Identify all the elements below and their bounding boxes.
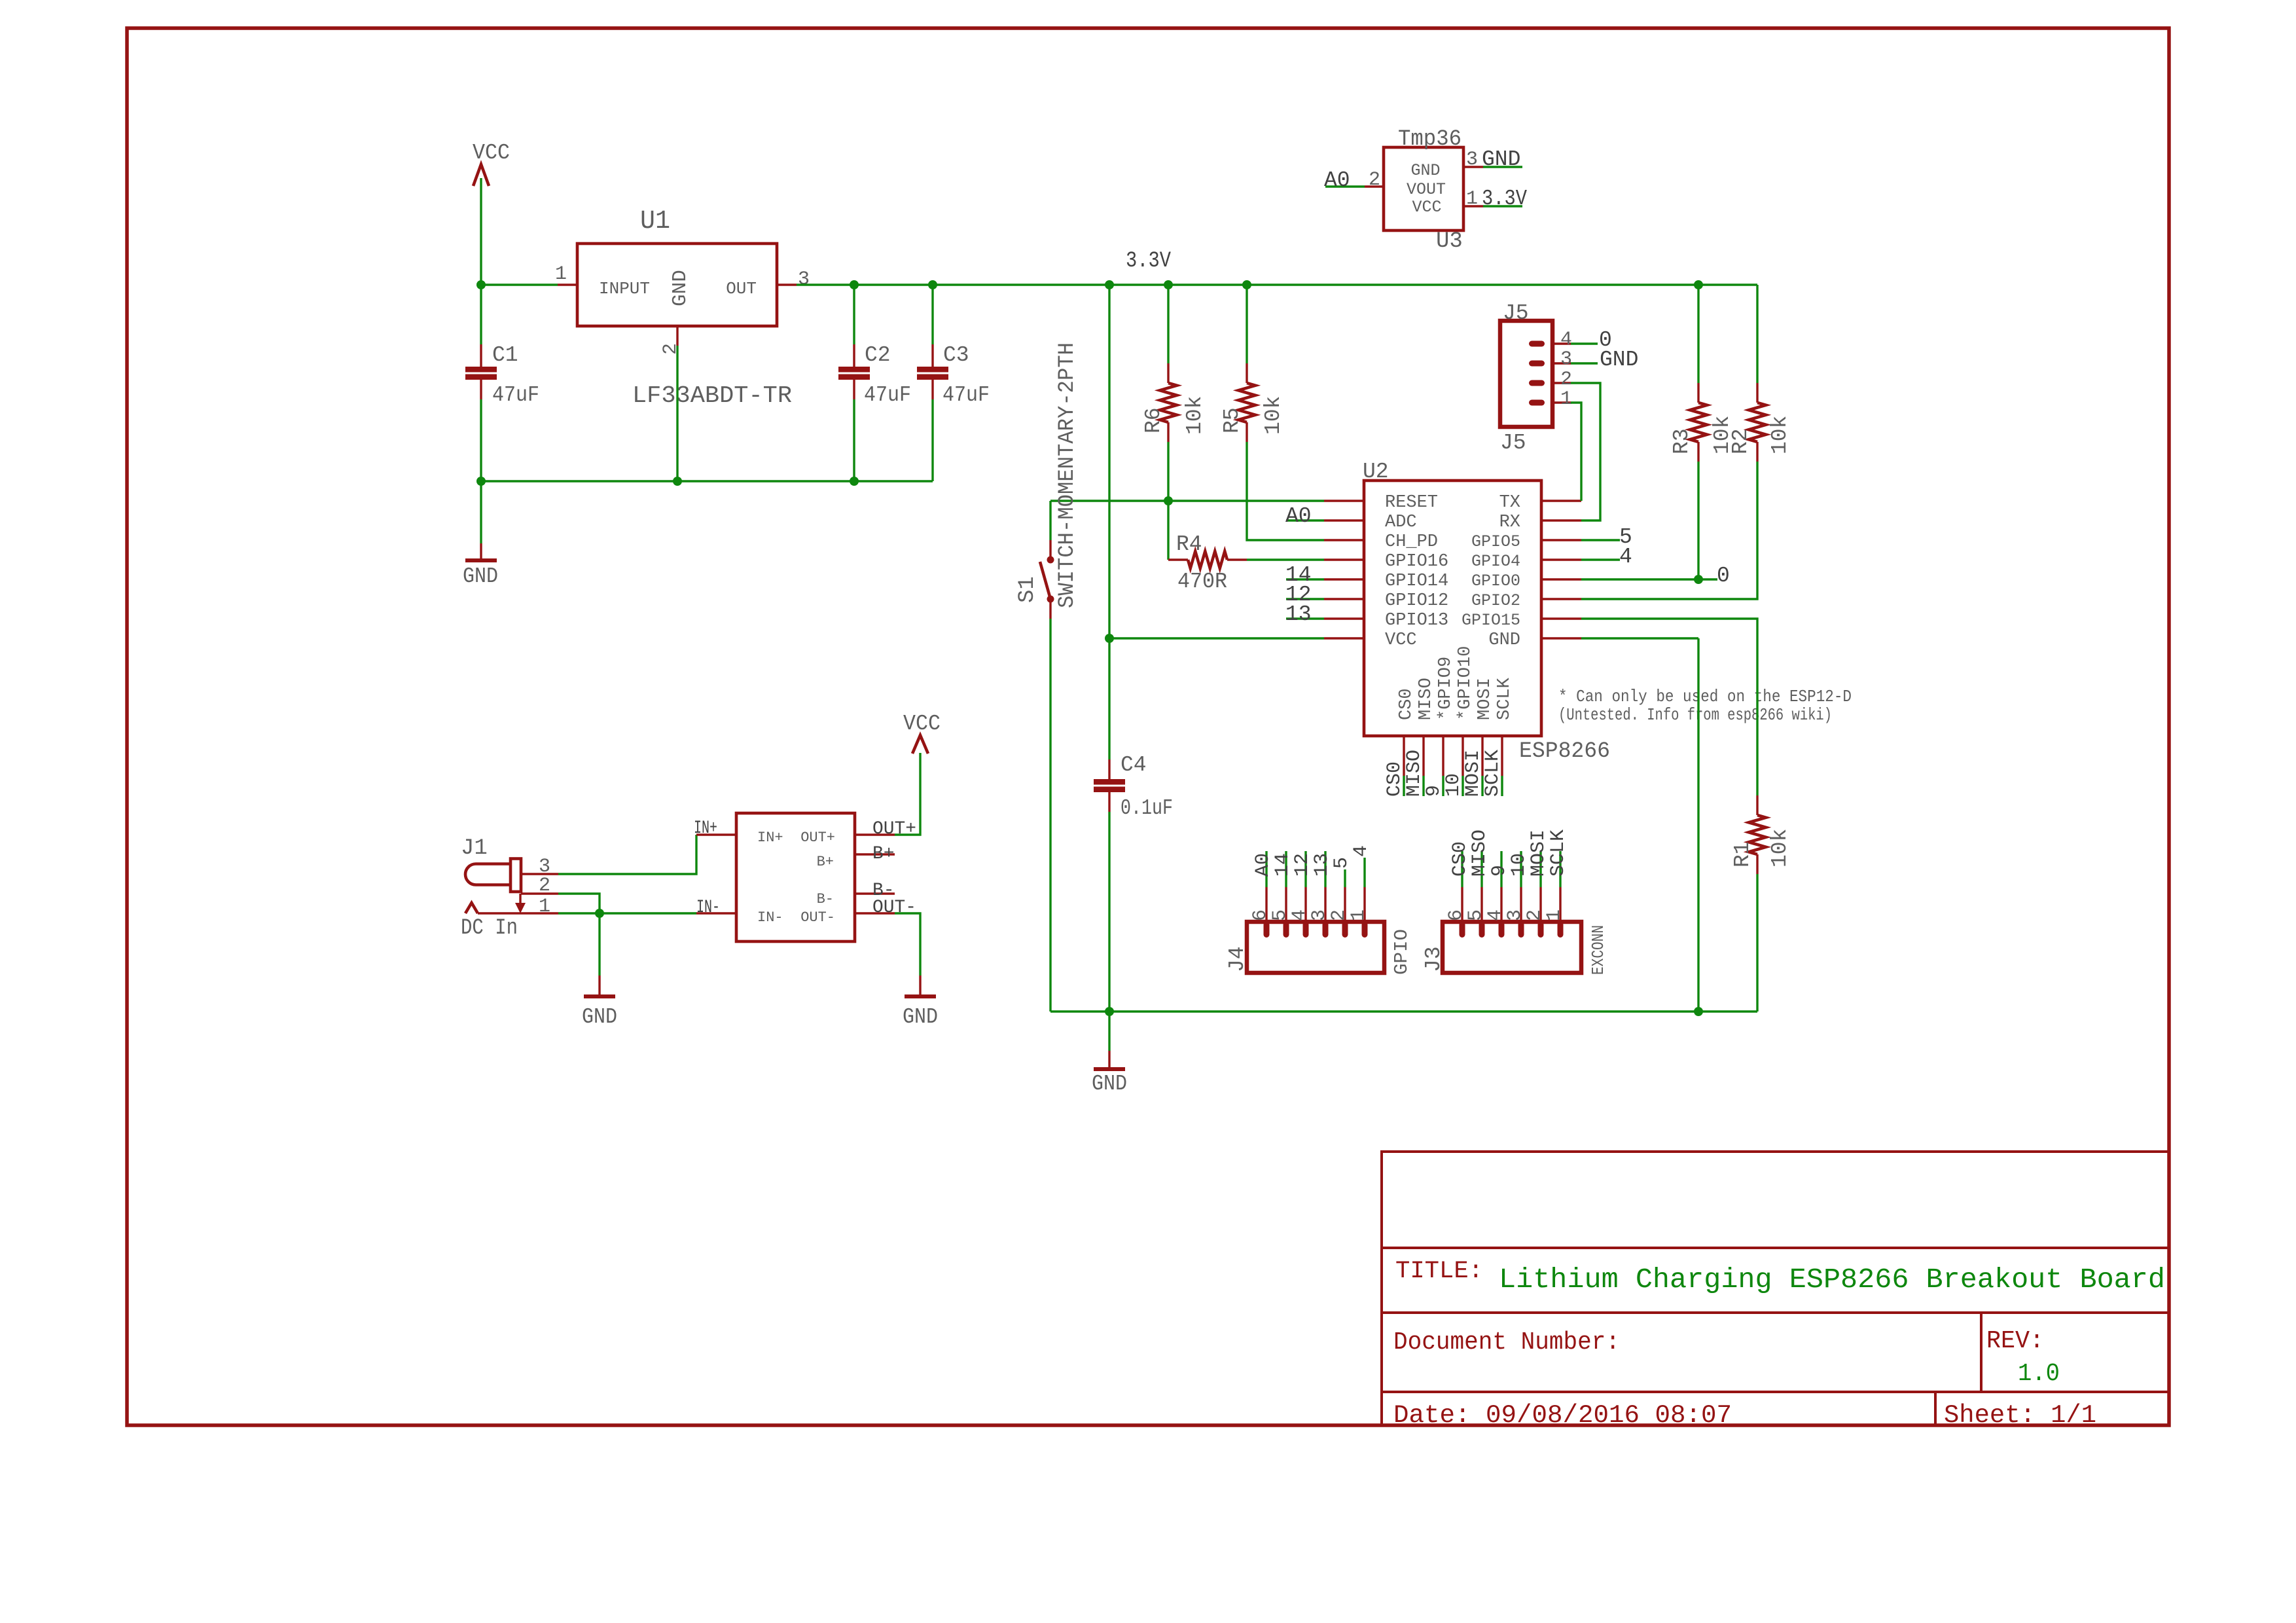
U2 right pins — [1541, 501, 1581, 638]
U3 pin 2 (VOUT) — [1365, 185, 1384, 187]
IC U3 Tmp36 — [1384, 127, 1463, 254]
wire GPIO4 stub — [1581, 558, 1620, 560]
svg-text:SWITCH-MOMENTARY-2PTH: SWITCH-MOMENTARY-2PTH — [1055, 342, 1080, 608]
svg-text:10k: 10k — [1768, 416, 1792, 454]
svg-text:J5: J5 — [1500, 431, 1526, 455]
svg-text:*GPIO10: *GPIO10 — [1456, 646, 1475, 720]
svg-text:4: 4 — [1289, 909, 1311, 921]
svg-text:U1: U1 — [640, 207, 670, 236]
svg-text:A0: A0 — [1252, 853, 1274, 877]
connector J4 — [1225, 887, 1412, 975]
resistor R1 — [1731, 795, 1792, 874]
svg-text:1: 1 — [555, 263, 567, 285]
wire GPIO0 to R3 column — [1581, 578, 1698, 580]
wire VCC row to U2 — [1109, 637, 1324, 639]
ground symbol (bottom center) — [1092, 1051, 1127, 1096]
svg-text:IN-: IN- — [696, 898, 720, 918]
svg-text:GPIO14: GPIO14 — [1385, 572, 1448, 591]
wire to ground symbol — [480, 481, 482, 543]
wire C4 bottom to rail — [1108, 812, 1110, 1012]
svg-text:6: 6 — [1445, 909, 1467, 921]
wire C3 bottom — [931, 399, 933, 481]
svg-text:TITLE:: TITLE: — [1395, 1258, 1483, 1285]
wire OUT- down — [895, 913, 920, 976]
node GND column rail junction — [1694, 1007, 1703, 1016]
svg-text:Tmp36: Tmp36 — [1398, 127, 1462, 152]
wire U1 pin2 to GND bus — [676, 346, 678, 481]
svg-text:B+: B+ — [872, 844, 895, 864]
svg-text:OUT: OUT — [726, 279, 757, 299]
wire GPIO2 to R2 — [1581, 462, 1757, 599]
wire VCC stem — [480, 178, 482, 285]
svg-text:GPIO13: GPIO13 — [1385, 611, 1448, 630]
wire GPIO5 stub — [1581, 539, 1620, 541]
net labels J4: A0 14 12 13 5 4 — [1252, 845, 1372, 877]
svg-text:1.0: 1.0 — [2018, 1360, 2060, 1388]
node VCC/C1 junction — [476, 280, 486, 289]
svg-text:4: 4 — [1350, 845, 1372, 857]
svg-text:1: 1 — [539, 896, 550, 918]
svg-text:GND: GND — [463, 564, 498, 589]
wire S1/C4 column from rail — [1108, 285, 1110, 759]
svg-text:GPIO4: GPIO4 — [1471, 552, 1520, 571]
node R6 rail junction — [1164, 280, 1173, 289]
connector J5 — [1500, 301, 1572, 455]
ground symbol (J1) — [582, 976, 617, 1029]
wire bottom ground rail — [1050, 1010, 1757, 1012]
svg-text:3: 3 — [1504, 909, 1526, 921]
wire 3.3V rail — [797, 283, 1757, 285]
svg-text:3: 3 — [1308, 909, 1331, 921]
svg-text:S1: S1 — [1015, 576, 1040, 603]
power symbol VCC (right) — [903, 712, 941, 754]
wire C2 top — [853, 285, 855, 344]
wire J5 pin4 net 0 — [1571, 342, 1598, 344]
svg-text:3: 3 — [1560, 348, 1572, 371]
svg-text:4: 4 — [1484, 909, 1507, 921]
svg-text:J4: J4 — [1225, 946, 1249, 972]
svg-text:VCC: VCC — [1412, 198, 1441, 217]
svg-text:VCC: VCC — [473, 141, 510, 165]
wire GPIO12 stub — [1286, 598, 1324, 600]
net labels under U2: CS0 MISO 9 10 MOSI SCLK — [1384, 750, 1504, 797]
svg-text:2: 2 — [660, 343, 682, 355]
net labels J3: CS0 MISO 9 10 MOSI SCLK — [1449, 830, 1570, 877]
svg-text:CS0: CS0 — [1397, 688, 1416, 720]
svg-text:GND: GND — [1600, 348, 1638, 372]
power symbol VCC (left) — [473, 141, 510, 186]
svg-text:A0: A0 — [1285, 504, 1312, 528]
U3 pin 1 (VCC) — [1463, 205, 1483, 207]
capacitor C1 — [465, 343, 539, 407]
wire RESET junction down to R4 — [1167, 501, 1169, 560]
svg-text:9: 9 — [1488, 865, 1511, 877]
svg-text:MISO: MISO — [1469, 830, 1491, 877]
resistor R5 — [1220, 285, 1285, 442]
svg-text:GPIO15: GPIO15 — [1462, 611, 1520, 630]
svg-text:GND: GND — [1482, 147, 1520, 172]
svg-text:RESET: RESET — [1385, 493, 1438, 513]
svg-text:GPIO5: GPIO5 — [1471, 532, 1520, 551]
svg-text:1: 1 — [1543, 909, 1566, 921]
wire C1 bottom — [480, 399, 482, 481]
svg-text:10k: 10k — [1183, 396, 1207, 435]
svg-text:J3: J3 — [1422, 946, 1446, 972]
svg-text:U3: U3 — [1436, 229, 1463, 254]
svg-text:Date: 09/08/2016 08:07: Date: 09/08/2016 08:07 — [1393, 1401, 1732, 1430]
svg-text:GPIO0: GPIO0 — [1471, 572, 1520, 591]
wire A0 to U3 — [1325, 185, 1365, 187]
IC U2 ESP8266 box — [1363, 460, 1610, 764]
node R3 rail junction — [1694, 280, 1703, 289]
svg-text:10: 10 — [1443, 773, 1465, 797]
svg-text:OUT-: OUT- — [872, 898, 916, 918]
svg-text:MISO: MISO — [1403, 750, 1426, 797]
U2 bottom pins — [1404, 736, 1502, 776]
svg-text:VCC: VCC — [1385, 630, 1417, 650]
svg-text:13: 13 — [1311, 853, 1333, 877]
svg-text:47uF: 47uF — [492, 383, 539, 407]
svg-text:1: 1 — [1348, 909, 1370, 921]
wire VCC to U1 pin1 — [481, 283, 558, 285]
svg-text:VOUT: VOUT — [1407, 180, 1446, 199]
wire S1 bottom to rail — [1049, 619, 1051, 1012]
svg-text:10k: 10k — [1261, 396, 1285, 435]
svg-text:GND: GND — [1410, 161, 1440, 180]
svg-text:C2: C2 — [865, 343, 891, 367]
svg-text:MOSI: MOSI — [1528, 830, 1550, 877]
svg-text:R2: R2 — [1729, 428, 1753, 454]
svg-text:OUT+: OUT+ — [800, 830, 835, 846]
svg-text:OUT-: OUT- — [800, 909, 835, 926]
svg-text:GPIO16: GPIO16 — [1385, 552, 1448, 572]
wire J1 pin1 to IN- — [558, 912, 696, 914]
U1 pin 1 — [558, 283, 577, 285]
wires U2 bottom pin stubs — [1404, 776, 1502, 796]
wire S1 top — [1049, 501, 1051, 540]
wire to bottom ground symbol — [1108, 1012, 1110, 1051]
svg-text:R5: R5 — [1220, 407, 1244, 433]
svg-text:3.3V: 3.3V — [1482, 187, 1527, 211]
svg-text:GND: GND — [582, 1005, 617, 1029]
svg-text:C3: C3 — [943, 343, 969, 367]
ground symbol (OUT-) — [903, 976, 938, 1029]
wire ADC stub — [1286, 519, 1324, 521]
U2 left pins — [1324, 501, 1364, 638]
U3 pin 3 (GND) — [1463, 166, 1483, 168]
wire GPIO14 stub — [1286, 578, 1324, 580]
wires J3 pins — [1462, 851, 1560, 887]
svg-text:C1: C1 — [492, 343, 518, 367]
svg-text:5: 5 — [1331, 857, 1353, 869]
node GPIO0/R3 junction — [1694, 575, 1703, 584]
wire C2 bottom — [853, 399, 855, 481]
U1 pin 2 — [676, 326, 678, 346]
svg-text:GND: GND — [669, 270, 692, 306]
ground symbol (under C1) — [463, 543, 498, 589]
svg-text:14: 14 — [1272, 853, 1294, 877]
svg-text:1: 1 — [1560, 388, 1572, 410]
svg-text:DC In: DC In — [461, 916, 518, 941]
op-amp U1 voltage regulator box — [577, 207, 792, 409]
node C4 column rail junction — [1105, 280, 1114, 289]
svg-text:10: 10 — [1508, 853, 1530, 877]
svg-text:SCLK: SCLK — [1482, 750, 1504, 797]
svg-text:VCC: VCC — [903, 712, 941, 736]
svg-text:R3: R3 — [1670, 428, 1694, 454]
svg-text:GND: GND — [1092, 1072, 1127, 1096]
svg-text:4: 4 — [1560, 329, 1572, 351]
drawing frame border — [127, 28, 2169, 1425]
svg-text:GPIO12: GPIO12 — [1385, 591, 1448, 611]
node R5 rail junction — [1242, 280, 1251, 289]
wire J1 pin2 to IN- — [558, 894, 600, 913]
wire to ground (J1) — [598, 913, 600, 976]
svg-text:3.3V: 3.3V — [1126, 249, 1171, 274]
svg-text:OUT+: OUT+ — [872, 819, 916, 839]
svg-text:470R: 470R — [1177, 570, 1227, 594]
wire R5 to CH_PD — [1247, 442, 1324, 540]
wire GPIO0 label stub — [1698, 578, 1717, 580]
svg-text:0: 0 — [1717, 564, 1730, 588]
node C2 bus junction — [850, 477, 859, 486]
wire R4 to GPIO16 — [1247, 558, 1324, 560]
svg-text:*GPIO9: *GPIO9 — [1436, 657, 1456, 720]
svg-text:CS0: CS0 — [1384, 761, 1406, 797]
svg-text:IN-: IN- — [757, 909, 783, 926]
wire U3 GND — [1483, 166, 1522, 168]
svg-text:CH_PD: CH_PD — [1385, 532, 1438, 552]
svg-text:RX: RX — [1499, 513, 1520, 532]
wire J5 pin3 net GND — [1571, 362, 1598, 364]
wire GPIO15 to R1 — [1581, 619, 1757, 795]
svg-text:1: 1 — [1466, 188, 1478, 210]
svg-text:5: 5 — [1465, 909, 1487, 921]
svg-text:Sheet: 1/1: Sheet: 1/1 — [1944, 1401, 2096, 1430]
svg-text:4: 4 — [1619, 545, 1632, 569]
svg-text:R6: R6 — [1141, 407, 1166, 433]
title block outline — [1382, 1152, 2169, 1425]
wire OUT+ to VCC — [895, 753, 920, 835]
svg-text:SCLK: SCLK — [1495, 677, 1515, 720]
node C2 rail junction — [850, 280, 859, 289]
node U1 GND junction — [673, 477, 682, 486]
svg-text:GND: GND — [1488, 630, 1520, 650]
svg-text:13: 13 — [1285, 602, 1312, 627]
svg-text:3: 3 — [798, 268, 810, 291]
svg-text:12: 12 — [1291, 853, 1314, 877]
svg-text:C4: C4 — [1121, 753, 1147, 777]
svg-text:EXCONN: EXCONN — [1588, 925, 1608, 975]
wire C1 top — [480, 285, 482, 344]
svg-text:2: 2 — [1328, 909, 1350, 921]
svg-text:2: 2 — [1369, 169, 1380, 191]
wire J5 pin1 to TX — [1571, 403, 1581, 501]
svg-text:IN+: IN+ — [694, 818, 717, 839]
resistor R6 — [1141, 285, 1207, 501]
svg-text:ADC: ADC — [1385, 513, 1417, 532]
node R6/RESET junction — [1164, 496, 1173, 505]
svg-text:R1: R1 — [1731, 841, 1755, 867]
svg-text:J5: J5 — [1503, 301, 1529, 325]
IC battery charger block — [736, 813, 855, 941]
resistor R2 — [1729, 285, 1792, 462]
wire J1 pin3 to IN+ — [558, 835, 696, 874]
svg-text:INPUT: INPUT — [599, 279, 650, 299]
svg-text:47uF: 47uF — [864, 383, 911, 407]
svg-text:5: 5 — [1269, 909, 1291, 921]
svg-text:* Can only be used on the ESP1: * Can only be used on the ESP12-D — [1558, 687, 1852, 706]
svg-text:GPIO2: GPIO2 — [1471, 591, 1520, 610]
node bottom rail junction at C4 — [1105, 1007, 1114, 1016]
capacitor C3 — [917, 343, 990, 407]
svg-text:MOSI: MOSI — [1462, 750, 1484, 797]
svg-text:MISO: MISO — [1416, 678, 1436, 720]
capacitor C2 — [838, 343, 911, 407]
battery block pins — [696, 835, 895, 913]
svg-text:Lithium Charging ESP8266 Break: Lithium Charging ESP8266 Breakout Board — [1499, 1264, 2165, 1296]
svg-text:CS0: CS0 — [1449, 841, 1471, 877]
connector J1 DC jack — [461, 836, 558, 941]
svg-text:A0: A0 — [1324, 168, 1350, 192]
svg-text:B+: B+ — [817, 854, 834, 870]
wire GPIO13 stub — [1286, 617, 1324, 619]
resistor R3 — [1670, 285, 1734, 579]
svg-text:47uF: 47uF — [942, 383, 990, 407]
svg-text:J1: J1 — [461, 836, 488, 861]
svg-text:2: 2 — [1524, 909, 1546, 921]
connector J3 — [1422, 887, 1608, 975]
wire GND column down — [1697, 638, 1699, 1012]
node C3 rail junction — [928, 280, 937, 289]
svg-text:TX: TX — [1499, 493, 1520, 513]
svg-text:3: 3 — [1466, 149, 1478, 171]
svg-text:LF33ABDT-TR: LF33ABDT-TR — [632, 382, 792, 409]
svg-text:GND: GND — [903, 1005, 938, 1029]
wire R1 bottom to rail — [1756, 874, 1758, 1012]
svg-text:(Untested. Info from esp8266 w: (Untested. Info from esp8266 wiki) — [1558, 705, 1832, 725]
svg-text:IN+: IN+ — [757, 830, 783, 846]
node VCC row junction — [1105, 634, 1114, 643]
svg-text:6: 6 — [1249, 909, 1272, 921]
svg-text:2: 2 — [539, 875, 550, 897]
svg-text:SCLK: SCLK — [1547, 830, 1570, 877]
svg-text:ESP8266: ESP8266 — [1519, 739, 1610, 764]
svg-text:0.1uF: 0.1uF — [1121, 796, 1173, 820]
U1 pin 3 — [777, 283, 797, 285]
svg-text:R4: R4 — [1176, 532, 1202, 556]
switch S1 — [1015, 342, 1080, 619]
svg-text:10k: 10k — [1768, 829, 1792, 867]
svg-text:MOSI: MOSI — [1475, 678, 1495, 720]
resistor R4 — [1168, 532, 1247, 594]
svg-text:U2: U2 — [1363, 460, 1389, 484]
node GND bus left junction — [476, 477, 486, 486]
wire RESET row — [1050, 500, 1324, 501]
node J1 GND junction — [595, 909, 604, 918]
svg-text:Document Number:: Document Number: — [1393, 1328, 1620, 1357]
wire C3 top — [931, 285, 933, 344]
wire J5 pin2 to RX — [1571, 383, 1600, 520]
wires J4 pins — [1266, 851, 1365, 887]
wire U3 3.3V — [1483, 205, 1522, 207]
svg-text:REV:: REV: — [1986, 1327, 2044, 1355]
wire GND pin to column — [1581, 637, 1698, 639]
svg-text:B-: B- — [817, 891, 834, 907]
svg-text:GPIO: GPIO — [1391, 929, 1412, 975]
capacitor C4 — [1094, 753, 1173, 820]
wire GND bus — [481, 480, 933, 482]
svg-text:2: 2 — [1560, 369, 1572, 391]
svg-text:9: 9 — [1423, 785, 1445, 797]
